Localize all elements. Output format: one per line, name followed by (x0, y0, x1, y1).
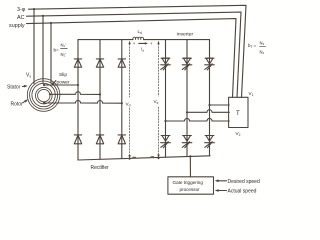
wire stator feed A (33, 9, 35, 83)
thyristor T4 bottom (161, 136, 171, 148)
fraction bar for bT ratio (260, 45, 266, 47)
label: plus sign Ve (150, 41, 153, 46)
svg-text:N₄: N₄ (260, 50, 265, 55)
diode D3 top (118, 59, 125, 67)
label: Actual speed (228, 189, 257, 195)
wire supply phase C top run (27, 19, 237, 98)
svg-text:Rotor: Rotor (11, 102, 24, 108)
label: bT = N3/N4 transformer ratio (248, 41, 265, 55)
wire gate triggering lead (189, 156, 191, 177)
wire inverter phase 1 to transformer with hops (166, 118, 230, 121)
svg-text:Id: Id (141, 47, 144, 53)
svg-text:Vs: Vs (26, 73, 31, 79)
label: T (236, 111, 240, 117)
diode D6 bottom (118, 135, 125, 144)
svg-text:power: power (57, 79, 70, 85)
label: minus sign Ve (151, 155, 154, 157)
svg-text:3-φ: 3-φ (17, 7, 26, 13)
node inverter leg 2 midpoint (186, 111, 188, 113)
transformer T box (229, 97, 248, 127)
label: Gate triggering processor (173, 180, 204, 192)
gate triggering processor box (168, 177, 214, 194)
svg-text:N₁': N₁' (61, 43, 66, 48)
label: Ld (138, 29, 142, 35)
wire inverter leg 3 (209, 40, 211, 156)
label: Id current arrow (139, 42, 148, 52)
svg-text:Vd: Vd (126, 102, 131, 108)
node phase A tap (33, 8, 35, 10)
label: b = N1'/N2' turns ratio (54, 43, 67, 58)
label: Rotor with arrow (11, 99, 28, 107)
wire rectifier leg 1 (77, 40, 79, 160)
wire rotor phase 1 to rectifier leg 1 (44, 84, 78, 86)
wire DC negative rail (78, 156, 210, 160)
diode D4 bottom (74, 135, 81, 144)
fraction bar for b ratio (61, 47, 68, 49)
svg-text:Inverter: Inverter (177, 32, 194, 38)
svg-text:AC: AC (17, 15, 25, 21)
label: Stator with arrow (7, 85, 28, 91)
wire rectifier leg 2 (99, 40, 101, 160)
wire stator feed B (42, 16, 44, 83)
diode D2 top (96, 59, 103, 67)
svg-text:Ld: Ld (138, 29, 142, 35)
label: Desired speed (228, 179, 260, 185)
node inverter leg 1 midpoint (164, 120, 166, 122)
wire inverter leg 2 (186, 40, 188, 157)
arrowhead Vd top (128, 41, 130, 45)
node rotor phase 3 (43, 102, 45, 104)
svg-text:Stator: Stator (7, 85, 21, 91)
label: minus sign Vd (133, 156, 136, 158)
svg-text:Rectifier: Rectifier (91, 165, 110, 171)
svg-text:N₂': N₂' (61, 52, 67, 57)
thyristor T2 top (182, 58, 192, 70)
voltage arrow Vd dashed (129, 44, 131, 157)
label: Inverter (177, 32, 194, 38)
wire supply phase B top run (27, 12, 242, 97)
wire rotor phase 2 to rectifier leg 2 with hop (50, 92, 100, 95)
arrowhead Ve bottom (157, 155, 159, 160)
svg-text:Desired speed: Desired speed (228, 179, 260, 185)
motor M1 stator and rotor circles (27, 79, 60, 112)
label: Ve (154, 99, 159, 105)
wire inverter leg 1 (165, 40, 167, 158)
wire inverter phase 3 to transformer (210, 104, 230, 106)
node rectifier leg 1 junction (77, 84, 79, 86)
wire DC positive rail left section (78, 39, 133, 41)
svg-text:Gate triggering: Gate triggering (173, 180, 204, 185)
node phase C tap (50, 22, 52, 24)
svg-text:V1: V1 (249, 91, 254, 97)
inductor Ld (133, 37, 144, 39)
svg-text:T: T (236, 111, 240, 117)
node rotor phase 1 (43, 84, 45, 86)
thyristor T6 bottom (205, 136, 215, 148)
label: Vd (126, 102, 131, 108)
svg-text:supply: supply (9, 23, 25, 29)
label: Slip power with arrow (51, 72, 70, 86)
svg-text:b=: b= (54, 48, 60, 53)
wire rectifier leg 3 (121, 40, 123, 159)
node rectifier leg 3 junction (121, 102, 123, 104)
label: Rectifier (91, 165, 110, 171)
wire supply phase A top run (29, 5, 247, 97)
wire DC positive rail right section (144, 39, 210, 41)
label: 3-phase AC supply (9, 7, 26, 29)
diode D5 bottom (96, 135, 103, 144)
arrow desired speed input (215, 179, 227, 182)
svg-text:bT =: bT = (248, 43, 257, 49)
label: V2 (236, 131, 241, 137)
label: Vs stator voltage (26, 73, 31, 79)
node inverter leg 3 midpoint (208, 104, 210, 106)
thyristor T5 bottom (182, 136, 192, 148)
thyristor T1 top (161, 58, 171, 70)
node gate lead junction on negative rail (189, 155, 191, 157)
arrowhead Ve top (157, 41, 159, 45)
node phase B tap (42, 15, 44, 17)
svg-text:V2: V2 (236, 131, 241, 137)
node rectifier leg 2 junction (99, 93, 101, 95)
wire stator feed C (50, 23, 52, 83)
label: V1 (249, 91, 254, 97)
svg-text:Ve: Ve (154, 99, 159, 105)
voltage arrow Ve dashed (158, 44, 160, 157)
node rotor phase 2 (49, 93, 51, 95)
svg-text:Actual speed: Actual speed (228, 189, 257, 195)
thyristor T3 top (205, 58, 215, 70)
wire inverter phase 2 to transformer with hop (187, 110, 229, 113)
svg-text:+: + (133, 41, 136, 46)
svg-text:N₃: N₃ (260, 41, 265, 46)
arrow actual speed input (215, 189, 227, 192)
arrowhead Vd bottom (128, 155, 130, 160)
svg-text:processor: processor (180, 187, 201, 192)
diode D1 top (74, 59, 81, 67)
svg-text:Slip: Slip (59, 72, 67, 78)
wire rotor phase 3 to rectifier leg 3 with hops (44, 100, 122, 103)
svg-text:+: + (150, 41, 153, 46)
label: plus sign Vd (133, 41, 136, 46)
